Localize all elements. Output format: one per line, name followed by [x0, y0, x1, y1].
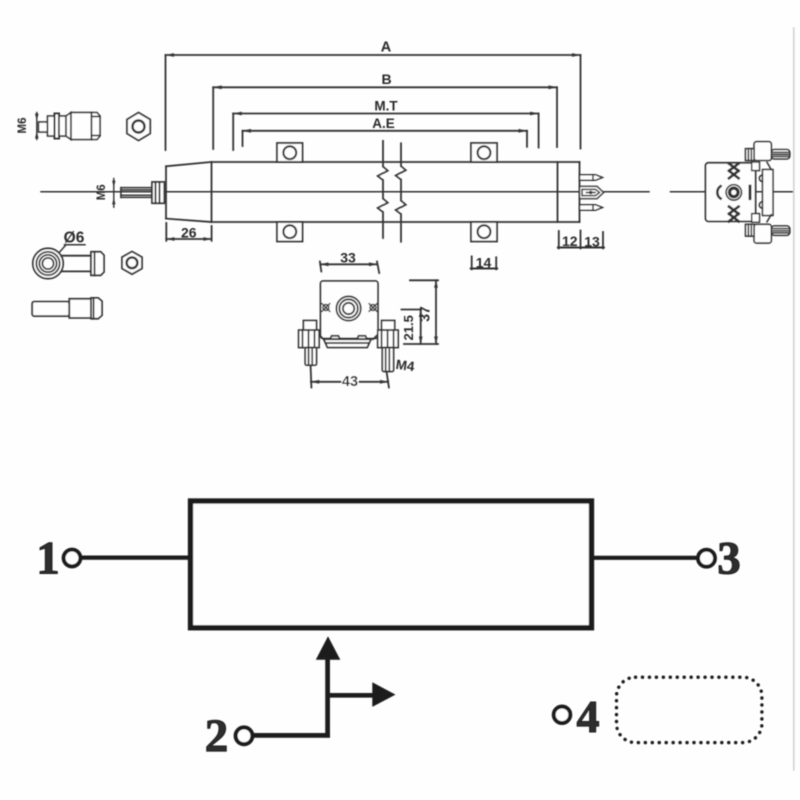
svg-text:1: 1	[36, 533, 60, 585]
end view top screw cross	[729, 164, 739, 179]
break line right	[396, 143, 406, 241]
terminal 4 circle	[554, 707, 571, 724]
center line	[41, 191, 793, 193]
end view bottom screw	[746, 224, 790, 243]
svg-text:26: 26	[181, 225, 197, 241]
accessory M6 adjuster dim arrows	[35, 113, 39, 140]
clamp side screw right	[369, 304, 377, 312]
svg-text:M.T: M.T	[374, 99, 398, 114]
svg-text:37: 37	[417, 306, 433, 322]
svg-text:4: 4	[577, 691, 600, 742]
wiper arrow shaft	[325, 658, 330, 738]
resistor element box	[191, 501, 592, 628]
rod M6 dim arrows	[112, 179, 115, 208]
end view top screw	[746, 142, 790, 161]
svg-text:13: 13	[584, 233, 600, 249]
svg-text:M4: M4	[395, 357, 416, 375]
dimension 12 13	[558, 231, 604, 250]
dimension 21.5	[401, 310, 423, 345]
rod end bearing head	[33, 248, 63, 278]
hex nut lower	[122, 252, 142, 275]
end view left clamp mark	[717, 186, 720, 198]
accessory M6 adjuster body	[39, 113, 101, 140]
svg-text:14: 14	[476, 255, 492, 271]
clamp side screw left	[322, 304, 330, 312]
connector pin bottom	[580, 205, 603, 211]
clevis pin bushing	[32, 298, 102, 319]
rod end bearing label Ø6	[51, 230, 86, 263]
svg-text:21.5: 21.5	[401, 315, 416, 340]
mounting bracket bottom 1	[277, 222, 303, 242]
dimension 26	[166, 223, 211, 241]
dimension M.T	[233, 99, 538, 151]
end view bracket plate	[752, 162, 773, 222]
mounting bracket top 1	[277, 143, 303, 162]
page right edge border	[793, 28, 795, 770]
wire terminal2 to wiper	[252, 733, 330, 738]
svg-text:B: B	[381, 71, 391, 87]
svg-text:M6: M6	[96, 184, 108, 200]
dimension A.E	[243, 116, 528, 147]
svg-text:3: 3	[717, 533, 741, 585]
end view center bolt	[726, 185, 741, 200]
hex nut upper	[127, 113, 150, 141]
terminal 1 circle	[64, 550, 81, 567]
svg-text:A: A	[381, 40, 392, 56]
end view bottom screw cross	[729, 207, 739, 222]
terminal 3 circle	[698, 550, 715, 567]
dimension A	[166, 40, 581, 151]
connector pin top	[580, 175, 603, 181]
svg-text:33: 33	[340, 250, 356, 266]
wire box to terminal3	[592, 556, 698, 560]
mounting bracket top 2	[471, 143, 497, 162]
end view square housing	[706, 163, 756, 222]
terminal 2 circle	[236, 727, 253, 744]
dimension 14	[471, 255, 497, 271]
wire terminal1 to box	[80, 555, 191, 559]
rod collar nut	[152, 182, 164, 203]
svg-text:M6: M6	[17, 118, 29, 134]
sensor body tube	[212, 162, 580, 222]
svg-text:2: 2	[205, 710, 229, 762]
end view right clamp mark	[749, 186, 752, 198]
wiper arrowhead	[316, 636, 341, 659]
svg-text:A.E: A.E	[372, 116, 395, 131]
optional connector dotted outline	[617, 677, 762, 742]
clamp saddle	[319, 335, 378, 348]
svg-text:Ø6: Ø6	[64, 230, 85, 247]
clamp block	[321, 281, 378, 338]
dimension B	[213, 71, 557, 149]
svg-text:12: 12	[562, 233, 578, 249]
break line left	[378, 141, 388, 238]
clamp M4 screw right	[378, 321, 399, 372]
sensor body cone	[166, 162, 212, 222]
wiper branch wire	[328, 693, 374, 698]
piston rod	[121, 188, 152, 198]
dimension 37	[404, 280, 438, 344]
clamp detail dimension 33	[320, 250, 379, 273]
connector pin middle	[580, 186, 604, 198]
clamp M4 screw left	[299, 321, 320, 366]
rod end bearing shank	[61, 252, 104, 275]
dimension 43	[311, 366, 389, 390]
mounting bracket bottom 2	[471, 222, 497, 242]
branch arrowhead	[372, 682, 395, 707]
clamp center bolt	[336, 296, 360, 320]
svg-text:43: 43	[342, 374, 358, 390]
